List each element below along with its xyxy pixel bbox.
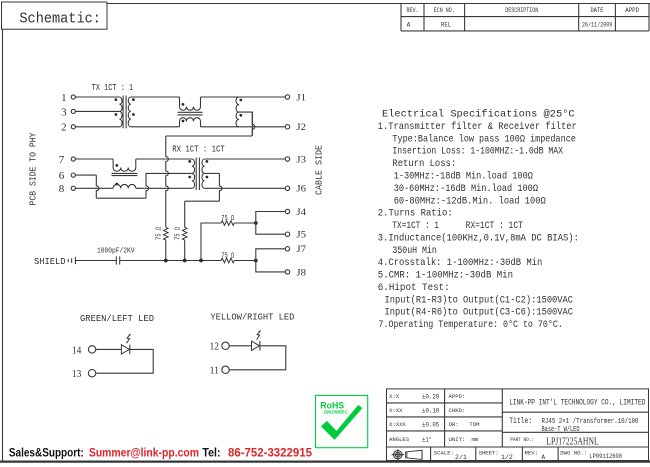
wire T3 center tap — [239, 112, 252, 136]
connector J6 circle — [285, 186, 289, 190]
choke CM2 dot top — [115, 164, 118, 167]
choke CM1 dot bottom — [182, 120, 185, 123]
label GREEN/LEFT LED — [80, 313, 154, 324]
junction J4J5 — [254, 221, 258, 225]
connector J5 label — [296, 230, 306, 240]
svg-text:Sales&Support:: Sales&Support: — [9, 445, 84, 459]
resistor R1 75ohm — [164, 227, 169, 240]
pin 3 label — [61, 106, 67, 118]
junction rail R1 — [164, 259, 168, 263]
label SHIELD — [34, 256, 66, 267]
svg-text:PCB SIDE TO PHY: PCB SIDE TO PHY — [29, 132, 39, 206]
svg-text:DR:: DR: — [449, 421, 459, 428]
wire to J8 — [256, 261, 285, 272]
cell CHKD — [449, 407, 466, 414]
junction rail riser — [199, 259, 203, 263]
svg-text:TOM: TOM — [469, 421, 479, 428]
svg-text:1-30MHz:-18dB Min.load 100Ω: 1-30MHz:-18dB Min.load 100Ω — [394, 171, 533, 183]
connector J1 circle — [285, 95, 289, 99]
cell UNIT mm — [449, 436, 479, 443]
svg-text:CABLE SIDE: CABLE SIDE — [315, 145, 325, 195]
choke CM1 top stub left — [179, 97, 181, 107]
svg-text:SHEET:: SHEET: — [479, 450, 499, 457]
connector J2 label — [296, 122, 306, 132]
svg-text:mm: mm — [472, 436, 479, 443]
svg-text:5.CMR: 1-100MHz:-30dB Min: 5.CMR: 1-100MHz:-30dB Min — [378, 270, 513, 282]
svg-text:86-752-3322915: 86-752-3322915 — [228, 445, 312, 459]
svg-text:Input(R4-R6)to Output(C3-C6):1: Input(R4-R6)to Output(C3-C6):1500VAC — [385, 307, 574, 319]
wire R3 to junction — [234, 222, 256, 224]
R4 label — [221, 252, 234, 260]
svg-text:60-80MHz:-12dB.Min. load 100Ω: 60-80MHz:-12dB.Min. load 100Ω — [394, 195, 546, 207]
wire T1 bottom to choke CM1 — [131, 126, 180, 128]
choke CM2 top stub left — [112, 159, 114, 168]
R3 label — [221, 215, 234, 223]
choke CM1 bottom winding — [180, 118, 201, 122]
wire R2 to rail — [184, 240, 186, 261]
wire pin12 to LED2 — [229, 345, 251, 347]
wire LED2 loop — [229, 346, 286, 370]
pin 1 label — [61, 92, 67, 104]
svg-text:J2: J2 — [296, 122, 306, 132]
rev header DESCRIPTION — [505, 7, 538, 14]
rev row date — [582, 22, 613, 29]
T3 dot a — [239, 99, 242, 102]
svg-text:SHIELD: SHIELD — [34, 256, 66, 267]
third angle projection symbol — [392, 450, 422, 460]
pin 7 label — [59, 154, 65, 166]
page bottom border — [0, 461, 650, 463]
svg-text:J5: J5 — [296, 230, 306, 240]
connector J3 circle — [285, 157, 289, 161]
choke CM2 core — [112, 173, 138, 175]
label CABLE SIDE — [315, 145, 325, 195]
svg-text:J8: J8 — [296, 267, 306, 277]
connector J4 circle — [285, 209, 289, 213]
C1 label — [97, 247, 135, 255]
svg-text:J3: J3 — [296, 154, 306, 164]
rev row REL — [441, 22, 451, 29]
svg-text:14: 14 — [72, 344, 82, 356]
svg-text:2/1: 2/1 — [455, 454, 467, 461]
wire pin6 down with hop — [96, 175, 99, 198]
svg-text:30-60MHz:-16dB Min.load 100Ω: 30-60MHz:-16dB Min.load 100Ω — [394, 183, 538, 195]
T2 primary dot b — [188, 176, 191, 179]
connector J4 label — [296, 207, 306, 217]
schematic title box — [2, 2, 108, 29]
wire pin2 to T1 — [75, 126, 119, 128]
connector J8 circle — [285, 270, 289, 274]
svg-text:7: 7 — [59, 154, 65, 166]
wire CT to T2 tap — [146, 172, 192, 174]
svg-text:1.Transmitter filter & Receive: 1.Transmitter filter & Receiver filter — [378, 121, 577, 133]
svg-text:8: 8 — [59, 183, 65, 195]
connector J7 circle — [285, 247, 289, 251]
cell DWG NO — [560, 450, 622, 462]
wire T2 sec tap right — [205, 172, 220, 174]
transformer T1 primary winding — [119, 97, 122, 127]
wire rail — [120, 260, 222, 262]
svg-text:7.Operating Temperature: 0°C t: 7.Operating Temperature: 0°C to 70°C. — [379, 319, 563, 331]
svg-text:2002/95/EC: 2002/95/EC — [323, 409, 348, 414]
wire choke CM1 to J2 with hop — [201, 126, 286, 128]
svg-text:±0.10: ±0.10 — [422, 407, 439, 414]
sales contact line — [9, 445, 312, 459]
pin 13 circle — [88, 370, 95, 377]
capacitor C1 1000pF — [116, 256, 119, 264]
svg-text:75 Ω: 75 Ω — [221, 252, 234, 260]
choke CM1 bottom stub left — [179, 121, 181, 126]
pin 11 circle — [222, 366, 229, 373]
LED2 yellow — [252, 330, 261, 350]
wire T2 sec tap across — [185, 200, 220, 202]
R1 label — [156, 227, 164, 240]
choke CM2 top stub right — [135, 159, 137, 168]
svg-text:DWG NO.:: DWG NO.: — [560, 450, 587, 457]
svg-text:REL: REL — [441, 22, 451, 29]
svg-text:DATE: DATE — [591, 7, 604, 14]
wire to J5 — [256, 223, 285, 234]
transformer T1 secondary winding — [128, 97, 131, 127]
connector J7 label — [296, 244, 306, 254]
svg-text:YELLOW/RIGHT LED: YELLOW/RIGHT LED — [210, 312, 294, 323]
page left border — [2, 29, 4, 461]
choke CM1 top stub right — [200, 97, 202, 107]
pin 6 circle — [71, 173, 75, 177]
junction rail R2 — [183, 259, 187, 263]
wire to J4 — [256, 212, 285, 224]
svg-text:26/11/2009: 26/11/2009 — [582, 22, 613, 29]
wire choke CM2 to T2 — [136, 158, 192, 160]
pin 2 label — [61, 122, 67, 134]
connector J8 label — [296, 267, 306, 277]
wire TX tap down with hops — [166, 136, 169, 227]
pin 8 circle — [71, 186, 75, 190]
svg-text:TX=1CT : 1: TX=1CT : 1 — [392, 221, 439, 232]
svg-text:X:XXX: X:XXX — [389, 421, 406, 428]
tol ANGLES — [389, 435, 432, 443]
svg-text:Summer@link-pp.com: Summer@link-pp.com — [89, 445, 199, 459]
choke CM1 dot top — [182, 103, 185, 106]
svg-text:RX=1CT : 1CT: RX=1CT : 1CT — [466, 221, 523, 232]
svg-text:A: A — [407, 22, 411, 29]
resistor R4 75ohm — [221, 258, 234, 263]
wire pin6 under choke — [96, 197, 146, 199]
svg-text:LINK-PP INT'L TECHNOLOGY CO.,: LINK-PP INT'L TECHNOLOGY CO., LIMITED — [509, 397, 645, 407]
pin 2 circle — [71, 125, 75, 129]
wire to J7 — [256, 249, 285, 261]
rev header REV. — [407, 7, 419, 14]
svg-text:APPD: APPD — [625, 7, 639, 14]
pin 1 circle — [71, 95, 75, 99]
svg-text:J6: J6 — [296, 184, 306, 194]
wire T2 to J3 — [205, 158, 286, 160]
choke CM2 bottom winding — [113, 184, 136, 188]
resistor R3 75ohm — [221, 221, 234, 226]
pin 14 circle — [88, 346, 95, 353]
svg-text:REV:: REV: — [525, 450, 538, 457]
T1 secondary dot a — [132, 98, 135, 101]
svg-text:X:XX: X:XX — [389, 407, 403, 414]
svg-text:TX 1CT : 1: TX 1CT : 1 — [92, 83, 134, 93]
svg-text:2.Turns Ratio:: 2.Turns Ratio: — [378, 208, 453, 220]
svg-text:Insertion Loss: 1-100MHZ:-1.0d: Insertion Loss: 1-100MHZ:-1.0dB MAX — [392, 146, 563, 158]
tol X:X — [389, 393, 439, 400]
part number — [546, 436, 598, 447]
svg-text:13: 13 — [72, 368, 82, 380]
svg-text:LPJ17225AHNL: LPJ17225AHNL — [546, 436, 598, 447]
connector J2 circle — [285, 125, 289, 129]
pin 6 label — [59, 170, 65, 182]
label TX 1CT:1 — [92, 83, 134, 93]
T1 core — [123, 96, 126, 129]
T1 primary dot b — [115, 113, 118, 116]
pin 7 circle — [71, 157, 75, 161]
wire pin8 to T2 — [136, 187, 192, 189]
rev row A — [407, 22, 411, 29]
shield symbol — [68, 257, 75, 264]
svg-text:Type:Balance low pass 100Ω imp: Type:Balance low pass 100Ω impedance — [392, 133, 576, 145]
rev header DATE — [591, 7, 604, 14]
rev header APPD — [625, 7, 639, 14]
connector J6 label — [296, 184, 306, 194]
wire choke CM1 to J1 — [201, 96, 286, 98]
svg-text:REV.: REV. — [407, 7, 419, 14]
svg-text:Title:: Title: — [509, 416, 532, 426]
connector J5 circle — [285, 232, 289, 236]
svg-text:2: 2 — [61, 122, 67, 134]
svg-text:Schematic:: Schematic: — [19, 10, 101, 27]
title label — [509, 416, 532, 426]
T2 secondary dot b — [206, 176, 209, 179]
choke CM2 dot bottom — [115, 183, 118, 186]
svg-text:X:X: X:X — [389, 393, 400, 400]
tol X:XX — [389, 407, 439, 414]
RoHS logo — [316, 395, 368, 447]
revision table grid — [401, 4, 649, 31]
wire R1 to rail — [165, 240, 167, 261]
T1 primary dot a — [115, 98, 118, 101]
svg-text:12: 12 — [210, 341, 219, 353]
T2 secondary dot a — [206, 160, 209, 163]
pin 12 label — [210, 341, 219, 353]
svg-text:PART NO.:: PART NO.: — [510, 437, 534, 443]
title block grid — [387, 389, 649, 461]
svg-text:A: A — [542, 454, 546, 461]
choke CM2 top winding — [113, 168, 136, 172]
svg-text:±1°: ±1° — [422, 435, 432, 443]
svg-text:Input(R1-R3)to Output(C1-C2):1: Input(R1-R3)to Output(C1-C2):1500VAC — [385, 294, 574, 306]
pin 11 label — [210, 365, 219, 377]
cell REV — [525, 450, 546, 462]
connector J3 label — [296, 154, 306, 164]
autotransformer T3 winding — [236, 97, 239, 127]
svg-text:±0.20: ±0.20 — [422, 393, 439, 400]
connector J1 label — [296, 92, 306, 102]
wire riser to R3 — [201, 223, 221, 261]
T2 primary dot a — [188, 160, 191, 163]
wire pin8 to choke CM2 — [75, 187, 113, 189]
svg-text:±0.05: ±0.05 — [422, 421, 439, 428]
choke CM1 top winding — [180, 107, 201, 111]
svg-text:4.Crosstalk: 1-100MHz:-30dB Mi: 4.Crosstalk: 1-100MHz:-30dB Min — [378, 257, 543, 269]
svg-text:GREEN/LEFT LED: GREEN/LEFT LED — [80, 313, 154, 324]
svg-text:75 Ω: 75 Ω — [156, 227, 164, 240]
wire pin6 right — [75, 174, 96, 176]
hop T3 tap over J2 wire — [252, 112, 255, 136]
wire pin6 up with hop — [146, 173, 149, 198]
part no label — [510, 437, 534, 443]
svg-text:1: 1 — [61, 92, 67, 104]
tol X:XXX — [389, 421, 439, 428]
T1 secondary dot b — [132, 113, 135, 116]
choke CM1 bottom stub right — [200, 121, 202, 126]
svg-text:75 Ω: 75 Ω — [175, 227, 183, 240]
cell DR TOM — [449, 421, 480, 428]
svg-text:11: 11 — [210, 365, 219, 377]
resistor R2 75ohm — [182, 227, 187, 240]
title line1 — [542, 418, 639, 426]
svg-text:CHKD:: CHKD: — [449, 407, 466, 414]
svg-text:APPD:: APPD: — [449, 393, 466, 400]
company name — [509, 397, 645, 407]
svg-text:1/2: 1/2 — [501, 454, 513, 461]
wire pin3 to T1 tap — [75, 110, 119, 112]
wire LED1 loop — [96, 349, 153, 373]
svg-text:Base-T W/LED: Base-T W/LED — [542, 426, 580, 434]
T2 core — [196, 158, 199, 191]
choke CM1 core — [178, 112, 203, 115]
cell SHEET — [479, 450, 513, 462]
svg-text:Return Loss:: Return Loss: — [392, 159, 456, 170]
svg-text:LP09112608: LP09112608 — [589, 453, 622, 461]
wire R4 to junction — [234, 260, 256, 262]
wire T2 sec tap to R2 — [184, 201, 186, 227]
svg-text:3: 3 — [61, 106, 67, 118]
title line2 — [542, 426, 580, 434]
rev header ECN NO. — [434, 7, 455, 14]
svg-text:J1: J1 — [296, 92, 306, 102]
svg-text:6.Hipot Test:: 6.Hipot Test: — [378, 282, 450, 294]
electrical specifications text — [378, 109, 579, 331]
page top border — [107, 3, 650, 5]
label RX 1CT:1CT — [172, 145, 225, 155]
wire pin7 to choke CM2 — [75, 158, 113, 160]
T3 dot b — [239, 114, 242, 117]
svg-text:DESCRIPTION: DESCRIPTION — [505, 7, 538, 14]
wire T3 tap across — [166, 135, 253, 137]
cell APPD — [449, 393, 466, 400]
label PCB SIDE TO PHY — [29, 132, 39, 206]
wire pin14 to LED1 — [96, 348, 122, 350]
cell SCALE — [434, 450, 467, 462]
wire T2 sec tap down with hop — [219, 173, 222, 201]
label YELLOW/RIGHT LED — [210, 312, 294, 323]
svg-text:SCALE:: SCALE: — [434, 450, 454, 457]
pin 13 label — [72, 368, 82, 380]
pin 14 label — [72, 344, 82, 356]
svg-text:350uH Min: 350uH Min — [392, 245, 436, 257]
svg-text:ECN NO.: ECN NO. — [434, 7, 455, 14]
wire T2 to J6 — [205, 187, 286, 189]
wire T1 top to choke CM1 — [131, 96, 180, 98]
R2 label — [175, 227, 183, 240]
svg-text:Electrical Specifications @25°: Electrical Specifications @25°C — [382, 109, 575, 121]
transformer T2 secondary winding — [202, 159, 205, 188]
svg-text:75 Ω: 75 Ω — [221, 215, 234, 223]
svg-text:Tel:: Tel: — [202, 445, 220, 459]
LED1 green — [121, 334, 130, 354]
svg-text:1000pF/2KV: 1000pF/2KV — [97, 247, 135, 255]
svg-text:RX 1CT : 1CT: RX 1CT : 1CT — [172, 145, 225, 155]
svg-text:ANGLES: ANGLES — [389, 436, 410, 443]
svg-text:J7: J7 — [296, 244, 306, 254]
svg-text:UNIT:: UNIT: — [449, 436, 466, 443]
wire pin1 to T1 — [75, 96, 119, 98]
svg-text:3.Inductance(100KHz,0.1V,8mA D: 3.Inductance(100KHz,0.1V,8mA DC BIAS): — [378, 232, 579, 244]
pin 12 circle — [222, 342, 229, 349]
pin 8 label — [59, 183, 65, 195]
transformer T2 primary winding — [192, 159, 195, 188]
junction J7J8 — [254, 259, 258, 263]
pin 3 circle — [71, 109, 75, 113]
schematic title text — [19, 10, 101, 27]
wire shield to cap — [75, 260, 116, 262]
svg-text:J4: J4 — [296, 207, 306, 217]
svg-text:6: 6 — [59, 170, 65, 182]
